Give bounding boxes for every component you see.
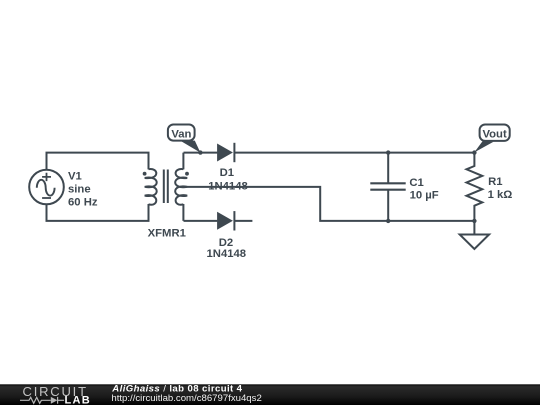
svg-text:LAB: LAB <box>65 395 92 405</box>
svg-text:D2: D2 <box>219 237 233 249</box>
svg-text:1N4148: 1N4148 <box>208 180 248 192</box>
svg-text:V1: V1 <box>68 170 82 182</box>
svg-text:1N4148: 1N4148 <box>207 248 247 260</box>
svg-text:D1: D1 <box>220 167 234 179</box>
svg-text:Van: Van <box>171 129 191 141</box>
svg-text:10 µF: 10 µF <box>410 189 439 201</box>
svg-text:http://circuitlab.com/c86797fx: http://circuitlab.com/c86797fxu4qs2 <box>111 393 261 404</box>
svg-text:60 Hz: 60 Hz <box>68 196 98 208</box>
svg-text:R1: R1 <box>488 176 502 188</box>
svg-text:1 kΩ: 1 kΩ <box>488 189 513 201</box>
svg-text:sine: sine <box>68 183 91 195</box>
svg-text:Vout: Vout <box>482 129 506 141</box>
svg-text:C1: C1 <box>409 177 423 189</box>
svg-text:XFMR1: XFMR1 <box>148 227 186 239</box>
